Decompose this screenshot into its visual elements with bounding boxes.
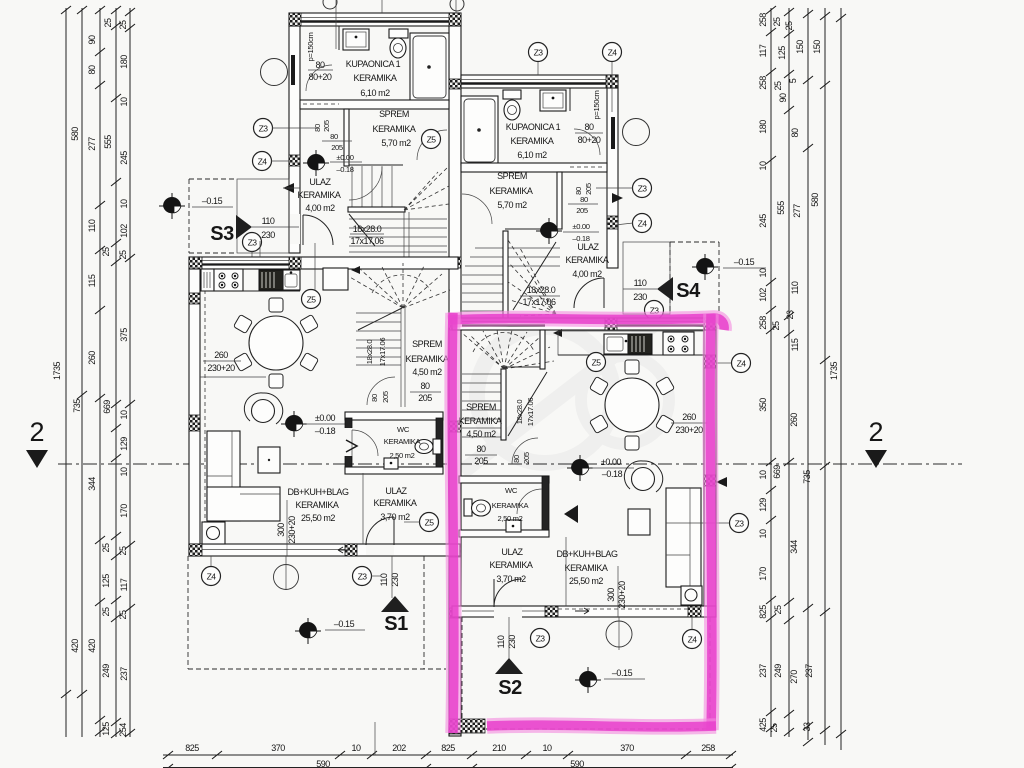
svg-text:–0.15: –0.15 — [334, 619, 355, 629]
entry door pink unit bottom — [494, 607, 522, 619]
svg-text:260: 260 — [214, 350, 228, 360]
central wall piers — [449, 79, 461, 89]
benchmark entry2 — [536, 218, 562, 244]
left wall upper — [289, 26, 300, 253]
benchmark icon entry — [303, 150, 329, 176]
armchair + plant pink — [632, 468, 655, 491]
svg-text:80: 80 — [87, 65, 97, 75]
armchair + plant left — [252, 400, 275, 423]
svg-text:270: 270 — [789, 670, 799, 684]
dim line R3 — [807, 8, 809, 740]
svg-text:25: 25 — [103, 18, 113, 28]
svg-text:580: 580 — [810, 193, 820, 207]
partition ULAZ/DB pink — [565, 537, 567, 606]
svg-text:25: 25 — [784, 21, 794, 31]
svg-text:10: 10 — [758, 268, 768, 278]
svg-text:4,50 m2: 4,50 m2 — [466, 429, 496, 439]
svg-text:18x28.0: 18x28.0 — [527, 285, 556, 295]
svg-text:S3: S3 — [210, 223, 234, 245]
svg-text:580: 580 — [70, 127, 80, 141]
counter line — [201, 290, 300, 292]
svg-text:425: 425 — [758, 718, 768, 732]
svg-text:SPREM: SPREM — [379, 109, 409, 119]
bottom dimension line — [163, 722, 736, 768]
bathtub bathroom1 — [410, 33, 449, 101]
svg-text:80: 80 — [790, 128, 800, 138]
benchmark porch S4 — [692, 254, 718, 280]
Z3 circle left wall — [254, 119, 273, 138]
svg-text:3,70 m2: 3,70 m2 — [380, 512, 410, 522]
svg-text:80: 80 — [512, 455, 521, 463]
pink bottom edge — [487, 725, 716, 727]
svg-text:277: 277 — [87, 137, 97, 151]
svg-text:260: 260 — [87, 351, 97, 365]
tiny circles at top edge — [323, 0, 337, 9]
toilet bathroom1 — [389, 29, 408, 38]
svg-text:–0.15: –0.15 — [612, 668, 633, 678]
Z3 circle porch — [243, 233, 262, 252]
svg-text:5,70 m2: 5,70 m2 — [497, 200, 527, 210]
svg-text:230+20: 230+20 — [617, 581, 627, 609]
L-sofa pink unit — [666, 488, 701, 587]
svg-text:Z4: Z4 — [608, 48, 618, 58]
svg-text:2,50 m2: 2,50 m2 — [498, 514, 523, 523]
living top wall — [189, 257, 458, 269]
svg-text:129: 129 — [119, 437, 129, 451]
toilet WC left — [433, 439, 441, 454]
svg-text:80: 80 — [584, 122, 594, 132]
svg-text:1735: 1735 — [52, 361, 62, 380]
svg-text:258: 258 — [758, 76, 768, 90]
svg-text:Z4: Z4 — [207, 572, 217, 582]
svg-text:125: 125 — [777, 46, 787, 60]
svg-text:170: 170 — [758, 567, 768, 581]
svg-text:110: 110 — [496, 635, 506, 648]
svg-text:Z3: Z3 — [534, 48, 544, 58]
dim line L2 — [81, 8, 83, 737]
svg-text:17x17.06: 17x17.06 — [350, 236, 384, 246]
Z5 living left — [302, 290, 321, 309]
SPREM2 wall — [557, 172, 562, 229]
svg-text:Z4: Z4 — [638, 219, 648, 229]
porch paved rect — [237, 179, 289, 253]
toilet WC pink — [464, 499, 472, 516]
svg-text:10: 10 — [351, 743, 361, 753]
Z3 leader sofa — [730, 514, 749, 533]
svg-text:90: 90 — [87, 35, 97, 45]
svg-text:6,10 m2: 6,10 m2 — [517, 150, 547, 160]
svg-text:p=150cm: p=150cm — [306, 32, 315, 61]
svg-text:669: 669 — [102, 400, 112, 414]
svg-text:33: 33 — [802, 722, 812, 732]
svg-text:–0.18: –0.18 — [315, 426, 336, 436]
svg-text:Z5: Z5 — [425, 518, 435, 528]
svg-text:80: 80 — [315, 60, 325, 70]
threshold arrow bottom — [575, 608, 589, 614]
side table pink — [628, 509, 650, 535]
pier left wall — [289, 155, 300, 166]
svg-text:344: 344 — [789, 540, 799, 554]
svg-text:–0.18: –0.18 — [336, 165, 353, 174]
svg-text:230+20: 230+20 — [207, 363, 235, 373]
WC room left unit — [345, 412, 443, 420]
svg-text:245: 245 — [119, 151, 129, 165]
svg-text:80: 80 — [330, 132, 338, 141]
right dim labels (rotated) — [758, 13, 839, 733]
bathroom1 left: sink counter divider — [338, 26, 340, 50]
svg-text:25: 25 — [101, 607, 111, 617]
svg-text:258: 258 — [701, 743, 715, 753]
tall cabinet near stairs — [323, 268, 348, 290]
bathroom1 bottom wall — [300, 100, 449, 109]
porch paved rect — [623, 242, 670, 314]
svg-text:80: 80 — [420, 381, 430, 391]
bathroom2 bottom wall — [461, 163, 607, 172]
svg-text:DB+KUH+BLAG: DB+KUH+BLAG — [287, 487, 349, 497]
svg-text:2,50 m2: 2,50 m2 — [390, 451, 415, 460]
svg-text:230: 230 — [507, 635, 517, 649]
treads lower part — [349, 218, 447, 220]
central wall full height — [449, 26, 461, 736]
svg-text:735: 735 — [802, 470, 812, 484]
side table left — [258, 447, 280, 473]
svg-text:KUPAONICA 1: KUPAONICA 1 — [346, 59, 401, 69]
svg-text:10: 10 — [758, 529, 768, 539]
window bar right wall — [611, 117, 615, 149]
svg-text:370: 370 — [271, 743, 285, 753]
benchmark living left — [281, 411, 307, 437]
Z3 below wall pink — [531, 629, 550, 648]
right wall upper — [607, 88, 618, 268]
entry door left unit bottom — [366, 545, 394, 555]
dashed terrace left unit — [188, 556, 446, 669]
svg-text:110: 110 — [87, 219, 97, 232]
svg-text:245: 245 — [758, 214, 768, 228]
left dim labels (rotated) — [52, 18, 129, 737]
svg-text:230: 230 — [390, 573, 400, 587]
svg-text:205: 205 — [322, 120, 331, 132]
svg-text:205: 205 — [474, 456, 488, 466]
svg-text:230+20: 230+20 — [287, 516, 297, 544]
svg-text:17x17.06: 17x17.06 — [522, 297, 556, 307]
svg-text:KERAMIKA: KERAMIKA — [490, 560, 533, 570]
svg-text:129: 129 — [758, 498, 768, 512]
kitchen left: hood strip — [201, 269, 214, 291]
SPREM room wall — [344, 109, 349, 166]
washing machine pink corner — [681, 586, 702, 605]
svg-text:205: 205 — [381, 391, 390, 403]
svg-text:Z3: Z3 — [536, 634, 546, 644]
svg-text:Z4: Z4 — [688, 635, 698, 645]
benchmark pink living — [567, 455, 593, 481]
understair door swing — [367, 377, 395, 405]
svg-text:80: 80 — [574, 187, 583, 195]
svg-text:±0.00: ±0.00 — [572, 222, 589, 231]
sink WC pink — [506, 520, 521, 532]
svg-text:170: 170 — [119, 504, 129, 518]
stairs upper flight right unit — [462, 231, 560, 319]
svg-text:S1: S1 — [384, 613, 408, 635]
svg-text:KERAMIKA: KERAMIKA — [511, 136, 554, 146]
pink right edge — [710, 314, 712, 730]
dining table pink — [605, 378, 659, 432]
svg-text:590: 590 — [570, 759, 584, 768]
threshold circle pink — [606, 621, 632, 647]
svg-text:6,10 m2: 6,10 m2 — [360, 88, 390, 98]
svg-text:Z3: Z3 — [259, 124, 269, 134]
svg-text:KERAMIKA: KERAMIKA — [296, 500, 339, 510]
svg-text:17x17.06: 17x17.06 — [526, 398, 535, 427]
Z3 circle porch S4 — [645, 301, 664, 320]
Z4 below wall — [202, 567, 221, 586]
fan arc — [372, 275, 431, 293]
svg-text:25: 25 — [772, 17, 782, 27]
ticks right — [766, 6, 846, 746]
svg-text:555: 555 — [776, 201, 786, 215]
svg-text:370: 370 — [620, 743, 634, 753]
S1 marker — [381, 596, 409, 612]
sprem door swing — [417, 130, 447, 160]
svg-text:300: 300 — [276, 523, 286, 537]
counter line pink — [558, 354, 704, 356]
stair central wall — [400, 308, 402, 407]
svg-text:WC: WC — [505, 486, 518, 495]
flag marker kitchen — [553, 329, 562, 337]
left wall living — [189, 269, 200, 553]
left dimension column — [52, 6, 135, 738]
svg-text:115: 115 — [790, 338, 800, 351]
pink top edge — [448, 313, 724, 733]
svg-text:2: 2 — [868, 417, 883, 447]
svg-text:KERAMIKA: KERAMIKA — [490, 186, 533, 196]
svg-text:SPREM: SPREM — [412, 339, 442, 349]
sink bathroom2 — [540, 90, 566, 111]
svg-text:10: 10 — [542, 743, 552, 753]
arrow flag on left wall — [283, 183, 294, 193]
svg-text:825: 825 — [758, 605, 768, 619]
svg-text:Z3: Z3 — [638, 184, 648, 194]
pier top-right — [449, 13, 461, 26]
svg-text:Z5: Z5 — [427, 135, 437, 145]
svg-text:Z3: Z3 — [735, 519, 745, 529]
bathroom1 door swing — [306, 65, 332, 91]
dim circle on threshold — [274, 565, 299, 590]
dim line L5 — [129, 8, 131, 737]
top wall pink unit — [452, 318, 716, 330]
dim line R2 — [788, 8, 790, 737]
svg-text:150: 150 — [812, 40, 822, 54]
Z3 mid — [633, 179, 652, 198]
svg-text:10: 10 — [119, 410, 129, 420]
svg-text:249: 249 — [101, 664, 111, 678]
Z4 leader top — [603, 43, 622, 62]
svg-text:1735: 1735 — [829, 361, 839, 380]
sprem exit door swing — [349, 167, 382, 200]
lower stair fan left unit (dashed, above cut) — [348, 263, 450, 407]
svg-text:205: 205 — [584, 183, 593, 195]
svg-text:80: 80 — [580, 195, 588, 204]
svg-text:590: 590 — [316, 759, 330, 768]
toilet bathroom2 — [503, 90, 521, 99]
Z3 below wall — [353, 567, 372, 586]
svg-text:258: 258 — [758, 13, 768, 27]
svg-text:25,50 m2: 25,50 m2 — [569, 576, 603, 586]
sprem door swing pink — [512, 438, 538, 464]
porch dashed outline — [189, 179, 237, 253]
svg-text:205: 205 — [522, 452, 531, 464]
svg-text:KERAMIKA: KERAMIKA — [354, 73, 397, 83]
svg-text:Z4: Z4 — [258, 157, 268, 167]
stair/kitchen divider wall — [540, 330, 545, 369]
section line 2-2 — [26, 417, 962, 468]
svg-text:110: 110 — [262, 216, 275, 226]
stairs lower flight pink unit — [462, 330, 554, 440]
divider — [569, 88, 571, 111]
svg-text:S2: S2 — [498, 677, 522, 699]
svg-text:25: 25 — [101, 247, 111, 257]
svg-text:115: 115 — [87, 274, 97, 287]
svg-text:117: 117 — [119, 578, 129, 591]
svg-text:80: 80 — [476, 444, 486, 454]
dim line R1 — [770, 8, 772, 737]
svg-text:18x28.0: 18x28.0 — [353, 224, 382, 234]
svg-text:18x28.0: 18x28.0 — [515, 400, 524, 425]
bathroom2 door swing — [574, 129, 600, 155]
svg-text:Z5: Z5 — [307, 295, 317, 305]
fan rays — [348, 263, 450, 308]
svg-text:–0.18: –0.18 — [602, 469, 623, 479]
top wall right unit — [461, 75, 618, 88]
bottom wall stub below pink left corner — [449, 719, 485, 733]
svg-text:KERAMIKA: KERAMIKA — [492, 501, 530, 510]
sink WC left — [384, 458, 398, 469]
Z4 circle left wall — [253, 152, 272, 171]
svg-text:344: 344 — [87, 477, 97, 491]
svg-text:23: 23 — [785, 310, 795, 320]
svg-text:5: 5 — [788, 78, 798, 83]
svg-text:258: 258 — [758, 316, 768, 330]
WC room pink unit — [459, 476, 549, 483]
tree circle outside right wall — [623, 119, 650, 146]
porch dashed outline — [670, 242, 719, 314]
Z5 circle sprem — [422, 130, 441, 149]
entry door opening + swing — [290, 214, 300, 244]
svg-text:237: 237 — [758, 664, 768, 678]
svg-text:825: 825 — [441, 743, 455, 753]
svg-text:237: 237 — [119, 667, 129, 681]
dining table left — [249, 316, 303, 370]
Z3 top — [529, 43, 548, 62]
svg-text:205: 205 — [418, 393, 432, 403]
svg-text:25: 25 — [769, 723, 779, 733]
svg-text:SPREM: SPREM — [497, 171, 527, 181]
S4 triangle — [657, 277, 673, 301]
svg-text:25: 25 — [773, 81, 783, 91]
svg-text:205: 205 — [576, 206, 588, 215]
arrow on bottom wall — [338, 547, 350, 553]
svg-text:25: 25 — [771, 321, 781, 331]
svg-text:25,50 m2: 25,50 m2 — [301, 513, 335, 523]
stairs upper flight left unit — [348, 166, 449, 258]
svg-text:735: 735 — [72, 399, 82, 413]
svg-text:277: 277 — [792, 204, 802, 218]
Z4 right of pink unit — [732, 354, 751, 373]
svg-text:KERAMIKA: KERAMIKA — [459, 416, 502, 426]
svg-text:205: 205 — [331, 143, 343, 152]
svg-text:25: 25 — [773, 605, 783, 615]
washing machine left corner — [202, 522, 225, 544]
svg-text:2: 2 — [29, 417, 44, 447]
svg-text:ULAZ: ULAZ — [309, 177, 331, 187]
svg-text:230: 230 — [633, 292, 647, 302]
svg-text:350: 350 — [758, 398, 768, 412]
svg-text:125: 125 — [101, 722, 111, 736]
Z4 mid — [633, 214, 652, 233]
svg-text:25: 25 — [118, 250, 128, 260]
svg-text:25: 25 — [118, 610, 128, 620]
svg-text:±0.00: ±0.00 — [601, 457, 622, 467]
svg-text:KERAMIKA: KERAMIKA — [384, 437, 422, 446]
svg-text:300: 300 — [606, 588, 616, 602]
dashed terrace pink unit — [462, 617, 710, 729]
svg-text:KERAMIKA: KERAMIKA — [298, 190, 341, 200]
svg-text:555: 555 — [103, 135, 113, 149]
svg-text:KERAMIKA: KERAMIKA — [374, 498, 417, 508]
door arrow into living pink — [564, 505, 578, 523]
Z5 near entry — [420, 513, 439, 532]
entry door right unit — [608, 277, 618, 307]
svg-text:80: 80 — [370, 394, 379, 402]
bottom wall living — [189, 544, 460, 556]
svg-text:Z3: Z3 — [248, 238, 258, 248]
bottom wall pink unit — [452, 606, 716, 617]
dim line L4 — [115, 8, 117, 737]
svg-text:–0.15: –0.15 — [202, 196, 223, 206]
svg-text:80+20: 80+20 — [309, 72, 332, 82]
sprem2 door swing — [462, 194, 492, 224]
svg-text:249: 249 — [773, 664, 783, 678]
svg-text:±0.00: ±0.00 — [315, 413, 336, 423]
dim line R4 — [824, 8, 826, 745]
sink unit left (dark) — [259, 270, 283, 290]
tree circle outside left wall — [261, 59, 288, 86]
svg-text:–0.15: –0.15 — [734, 257, 755, 267]
WC pink door swing — [517, 489, 542, 514]
svg-text:180: 180 — [758, 120, 768, 134]
svg-text:150: 150 — [795, 40, 805, 54]
svg-text:180: 180 — [119, 55, 129, 69]
dim line L3 — [99, 8, 101, 737]
dim line L1 — [65, 8, 67, 737]
svg-text:ULAZ: ULAZ — [385, 486, 407, 496]
benchmark porch — [159, 193, 185, 219]
right wall pink unit — [704, 330, 716, 617]
svg-text:10: 10 — [758, 470, 768, 480]
svg-text:p=150cm: p=150cm — [592, 90, 601, 119]
svg-text:ULAZ: ULAZ — [577, 242, 599, 252]
S3 triangle — [236, 215, 252, 239]
svg-text:WC: WC — [397, 425, 410, 434]
svg-text:KERAMIKA: KERAMIKA — [373, 124, 416, 134]
svg-text:110: 110 — [634, 278, 647, 288]
svg-text:Z5: Z5 — [592, 358, 602, 368]
stove pink — [663, 332, 694, 355]
svg-text:KERAMIKA: KERAMIKA — [565, 563, 608, 573]
stove left — [214, 269, 243, 291]
arrow flag on right wall pink — [716, 477, 727, 487]
svg-text:S4: S4 — [676, 280, 701, 302]
svg-text:Z3: Z3 — [358, 572, 368, 582]
